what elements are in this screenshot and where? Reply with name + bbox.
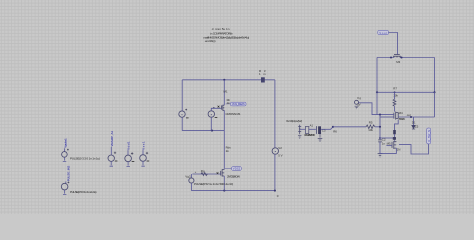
wire long to R5	[333, 126, 366, 128]
label Vgs minus dash	[215, 117, 218, 119]
label V5 minus dash	[115, 160, 118, 162]
wire stub above V5	[110, 147, 112, 155]
label V4 plus mark	[68, 182, 70, 184]
node junction output	[410, 116, 412, 118]
wire stub above V6	[127, 150, 129, 155]
svg-text:10k: 10k	[368, 128, 373, 132]
svg-text:Vg2: Vg2	[185, 174, 191, 178]
wire to M5 drain	[394, 134, 396, 140]
node junction A	[332, 126, 334, 128]
wire stub below V3 + minus	[63, 157, 66, 161]
voltage source V2	[272, 148, 278, 154]
svg-text:1m: 1m	[259, 72, 266, 76]
svg-text:R7: R7	[393, 87, 397, 91]
label V6 minus dash	[132, 160, 135, 162]
svg-text:CMOSN M1: CMOSN M1	[226, 112, 241, 116]
wire M5 source to ground	[380, 148, 396, 153]
wire Vgs bottom stub	[210, 117, 212, 130]
wire VB1 to box	[300, 128, 306, 130]
wire right vertical	[434, 58, 436, 93]
transistor M5 nmos	[392, 141, 396, 149]
wire M5 gate stub	[386, 145, 392, 147]
node junction M3 left	[390, 56, 392, 58]
svg-text:R5: R5	[369, 121, 373, 125]
wire M2 gate chain	[192, 173, 220, 175]
wire stub below V6 + minus	[127, 162, 130, 167]
voltage source V6	[125, 155, 132, 162]
resistor R5 zigzag	[366, 125, 375, 129]
transistor M1 nmos	[221, 105, 224, 111]
node junction M5 drain	[393, 137, 396, 140]
wire M1 source to mid rail	[223, 110, 225, 130]
label V1 plus mark	[185, 109, 187, 111]
svg-text:VDS2: VDS2	[233, 167, 241, 171]
wire Vgs top stub to gate	[211, 108, 221, 111]
voltage source V3	[62, 152, 68, 158]
ground below VB1	[298, 135, 301, 138]
svg-text:V_SW_N: V_SW_N	[427, 130, 431, 142]
wire below V1	[181, 117, 183, 130]
voltage source V5	[108, 155, 114, 161]
wire top rail right	[400, 57, 435, 59]
svg-text:VGS_MEAS: VGS_MEAS	[232, 102, 245, 106]
svg-text:1k: 1k	[226, 149, 230, 153]
node junction on mid rail	[211, 130, 213, 132]
svg-text:R6: R6	[333, 129, 337, 133]
node junction rail2 left	[376, 91, 378, 93]
wire box to cap	[309, 128, 316, 130]
wire from left vertical to gate wire	[376, 92, 378, 114]
node junction on top rail	[223, 79, 225, 81]
voltage source V1	[179, 111, 185, 117]
battery source VB1	[298, 125, 301, 135]
transistor M3	[393, 55, 401, 58]
svg-text:Rg: Rg	[201, 169, 205, 173]
node junction rail2 mid	[394, 91, 396, 93]
wire rail2	[377, 91, 435, 93]
capacitor C2	[378, 140, 382, 142]
wire C2 to ground	[379, 142, 381, 154]
component U1 box	[305, 127, 308, 134]
svg-text:2N: 2N	[397, 148, 401, 152]
node junction B	[379, 126, 381, 128]
capacitor C3	[317, 126, 321, 134]
wire top rail left	[377, 57, 394, 59]
wire x380 vertical	[379, 115, 381, 140]
wire stub above V4	[65, 182, 67, 184]
wire stub below V4 + minus	[63, 190, 66, 195]
transistor M2 nmos	[221, 169, 225, 176]
SCHEMATIC	[179, 69, 283, 198]
node junction bottom rail M2	[223, 190, 225, 192]
svg-text:.end .lib(n): .end .lib(n)	[205, 39, 216, 43]
node gate cross mark M2	[217, 172, 219, 174]
label V3 plus mark	[67, 149, 69, 151]
net label box nD1	[226, 102, 246, 106]
resistor R7 vertical	[394, 92, 396, 99]
label Vgs plus mark	[213, 107, 215, 109]
svg-text:1n: 1n	[382, 141, 386, 145]
ground below C3	[318, 134, 323, 142]
svg-text:V2: V2	[278, 146, 282, 150]
wire M1 drain to top rail	[223, 80, 225, 105]
label V6 plus mark	[131, 152, 133, 154]
wire right vertical upper	[274, 80, 276, 148]
ground below Vg	[355, 106, 359, 109]
label V7 minus dash	[147, 160, 150, 162]
wire left vertical	[181, 80, 183, 111]
wire cap to junction	[321, 127, 333, 130]
net label box nD2	[225, 167, 241, 171]
label V7 plus mark	[146, 152, 148, 154]
node junction C	[379, 137, 381, 139]
wire M5 right route to label	[399, 144, 429, 154]
node gate cross mark M1	[218, 106, 220, 108]
wire Vg to gate	[359, 103, 394, 115]
svg-text:Vg: Vg	[357, 96, 361, 100]
svg-text:Vx=V(in1)+V(x2): Vx=V(in1)+V(x2)	[286, 119, 302, 123]
ground G2	[378, 154, 383, 157]
svg-text:M3: M3	[396, 60, 400, 64]
svg-text:BSS84: BSS84	[399, 117, 406, 121]
wire parallel stub	[380, 116, 394, 118]
wire VDD top rail	[182, 79, 275, 81]
wire stub above V3	[63, 148, 65, 151]
svg-text:.tr .tran 5u 1n: .tr .tran 5u 1n	[211, 27, 230, 31]
node junction rail2 right	[433, 91, 435, 93]
svg-text:COMPARATOR: COMPARATOR	[304, 133, 315, 137]
wire stub below V7 + minus	[141, 161, 144, 166]
svg-text:A1: A1	[310, 124, 314, 128]
transistor M4 pmos	[394, 112, 398, 120]
label V5 plus mark	[114, 152, 116, 154]
resistor Rg zigzag	[201, 173, 207, 176]
diode D1 to ground	[412, 125, 416, 128]
wire M4 drain route	[395, 120, 399, 130]
wire right vertical lower	[274, 154, 276, 190]
wire M4 output	[398, 92, 434, 117]
svg-text:2N7002KDW: 2N7002KDW	[227, 175, 240, 179]
svg-text:PULSE(0 5V 1u 1n 1n 500n 1u 10: PULSE(0 5V 1u 1n 1n 500n 1u 10)	[194, 182, 233, 186]
wire VOUT to M3 gate	[389, 33, 398, 55]
svg-text:M5: M5	[387, 142, 391, 146]
svg-text:PULSE(0 3.3 0 1n 1n 1u): PULSE(0 3.3 0 1n 1n 1u)	[70, 157, 100, 161]
resistor R3 inline on top rail	[261, 77, 265, 82]
wire M2 source down	[223, 176, 225, 191]
svg-text:VRAMP_A1: VRAMP_A1	[110, 131, 114, 147]
net label box VSW vertical	[427, 128, 431, 144]
wire R5 to junction B	[375, 126, 380, 128]
node junction gate wire	[379, 114, 381, 116]
voltage source V4	[61, 183, 68, 190]
wire mid vertical lower	[223, 131, 225, 170]
node junction bottom right corner	[274, 190, 276, 192]
svg-text:Vpulse1: Vpulse1	[64, 138, 68, 148]
svg-text:Vout: Vout	[379, 31, 387, 35]
svg-text:M1: M1	[224, 89, 228, 93]
svg-text:PULSE(0 5 0 1n 1n 2u 4u): PULSE(0 5 0 1n 1n 2u 4u)	[70, 190, 97, 194]
wire stub above V7	[142, 150, 144, 155]
node junction M3 right	[400, 56, 402, 58]
svg-text:out: out	[407, 113, 411, 117]
svg-text:5V: 5V	[278, 153, 282, 157]
wire Vg2 to bottom rail	[190, 183, 192, 191]
voltage source Vgs	[208, 111, 214, 117]
wire bottom ground rail	[191, 190, 275, 192]
wire mid ground rail	[182, 130, 224, 132]
diode D2 inline	[393, 130, 396, 134]
svg-text:Vss1: Vss1	[141, 141, 145, 150]
svg-text:PULSE_IN2: PULSE_IN2	[66, 165, 70, 181]
wire cap node to M5 drain	[380, 137, 395, 139]
svg-text:Vdd1: Vdd1	[126, 141, 130, 150]
voltage source V7	[140, 155, 147, 162]
svg-text:Z5: Z5	[415, 125, 419, 129]
wire left vertical	[376, 58, 378, 93]
voltage source Vg small	[355, 100, 359, 104]
wire stub below V5 + minus	[110, 161, 113, 166]
label V1 minus dash	[186, 117, 189, 119]
net label box VOUT	[378, 30, 389, 34]
voltage source Vg2	[190, 174, 192, 178]
wire diode stub	[413, 117, 415, 125]
svg-text:M4: M4	[399, 111, 403, 115]
